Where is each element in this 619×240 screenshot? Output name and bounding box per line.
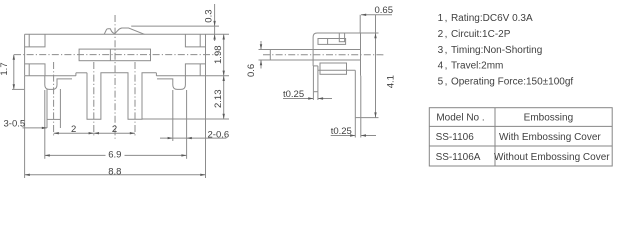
svg-text:3,Timing:Non-Shorting: 3,Timing:Non-Shorting xyxy=(438,45,543,56)
svg-text:1,Rating:DC6V 0.3A: 1,Rating:DC6V 0.3A xyxy=(438,13,533,24)
svg-text:6.9: 6.9 xyxy=(108,150,121,161)
svg-text:SS-1106A: SS-1106A xyxy=(436,152,481,163)
svg-text:8.8: 8.8 xyxy=(108,166,121,177)
svg-text:1.98: 1.98 xyxy=(213,46,224,65)
svg-text:Model No .: Model No . xyxy=(436,113,484,124)
svg-text:With Embossing Cover: With Embossing Cover xyxy=(499,132,601,143)
svg-text:2.13: 2.13 xyxy=(213,90,224,109)
svg-text:2-0.6: 2-0.6 xyxy=(208,130,230,141)
svg-text:Without Embossing Cover: Without Embossing Cover xyxy=(494,152,610,163)
svg-text:1.7: 1.7 xyxy=(0,62,10,75)
svg-text:4.1: 4.1 xyxy=(386,75,397,88)
svg-text:0.6: 0.6 xyxy=(246,64,257,77)
svg-text:Embossing: Embossing xyxy=(524,112,573,123)
svg-text:2,Circuit:1C-2P: 2,Circuit:1C-2P xyxy=(438,29,511,40)
svg-text:t0.25: t0.25 xyxy=(283,89,304,100)
svg-text:2: 2 xyxy=(71,124,76,135)
svg-text:0.65: 0.65 xyxy=(375,5,394,16)
svg-text:2: 2 xyxy=(112,124,117,135)
svg-text:5,Operating Force:150±100gf: 5,Operating Force:150±100gf xyxy=(438,77,574,88)
svg-text:SS-1106: SS-1106 xyxy=(436,132,475,143)
svg-text:0.3: 0.3 xyxy=(204,9,215,22)
svg-text:3-0.5: 3-0.5 xyxy=(4,118,26,129)
svg-text:t0.25: t0.25 xyxy=(331,126,352,137)
svg-text:4,Travel:2mm: 4,Travel:2mm xyxy=(438,60,504,71)
